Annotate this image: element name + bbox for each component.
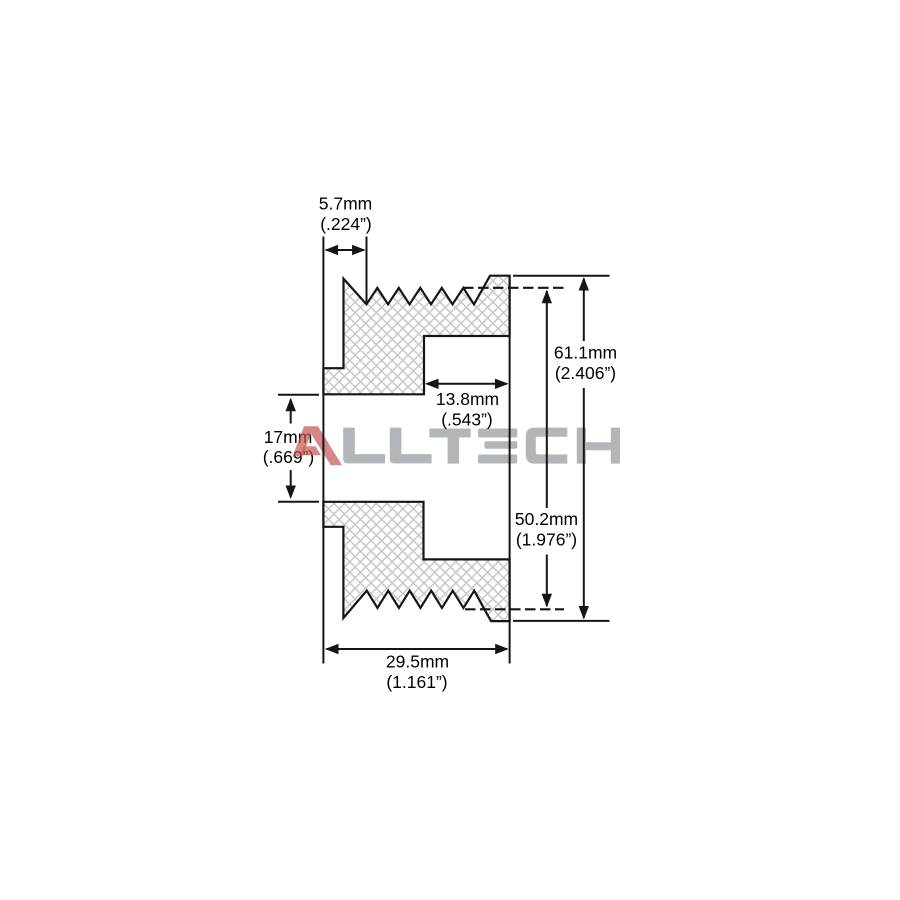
svg-text:5.7mm: 5.7mm bbox=[319, 194, 372, 214]
pulley upper half-section bbox=[323, 276, 509, 395]
svg-text:13.8mm: 13.8mm bbox=[436, 389, 499, 409]
61.1mm dimension arrow bbox=[579, 277, 589, 620]
17mm bottom tick bbox=[278, 501, 319, 503]
17mm dimension arrow bbox=[286, 398, 296, 499]
svg-text:(1.161”): (1.161”) bbox=[386, 672, 447, 692]
svg-text:(.543”): (.543”) bbox=[441, 410, 493, 430]
5.7mm dimension arrow bbox=[325, 245, 366, 255]
pulley lower half-section bbox=[323, 502, 509, 621]
13.8mm dimension arrow bbox=[425, 379, 509, 389]
svg-text:29.5mm: 29.5mm bbox=[386, 652, 449, 672]
5.7mm right extension line bbox=[366, 237, 368, 304]
svg-text:(2.406”): (2.406”) bbox=[555, 363, 616, 383]
svg-text:61.1mm: 61.1mm bbox=[554, 343, 617, 363]
watermark letter E bbox=[478, 429, 517, 438]
watermark letter T bbox=[429, 429, 470, 464]
upper dashed datum line bbox=[463, 287, 564, 289]
svg-text:50.2mm: 50.2mm bbox=[515, 509, 578, 529]
svg-text:(.224”): (.224”) bbox=[320, 214, 372, 234]
61.1mm top extension line bbox=[513, 275, 610, 277]
watermark letter H bbox=[577, 428, 620, 464]
61.1mm bottom extension line bbox=[513, 620, 610, 622]
right extension line bbox=[509, 276, 511, 664]
watermark letter C bbox=[526, 428, 568, 464]
watermark letter L2 bbox=[390, 428, 432, 464]
watermark letter L1 bbox=[343, 428, 385, 464]
50.2mm dimension arrow bbox=[542, 290, 552, 608]
svg-text:(1.976”): (1.976”) bbox=[516, 530, 577, 550]
17mm top tick bbox=[278, 394, 319, 396]
left bore extension line bbox=[322, 237, 324, 664]
29.5mm dimension arrow bbox=[325, 644, 509, 654]
watermark letters LLTECH (gray) bbox=[343, 428, 620, 464]
lower dashed datum line bbox=[465, 608, 564, 610]
watermark letter A (red) bbox=[293, 426, 343, 465]
